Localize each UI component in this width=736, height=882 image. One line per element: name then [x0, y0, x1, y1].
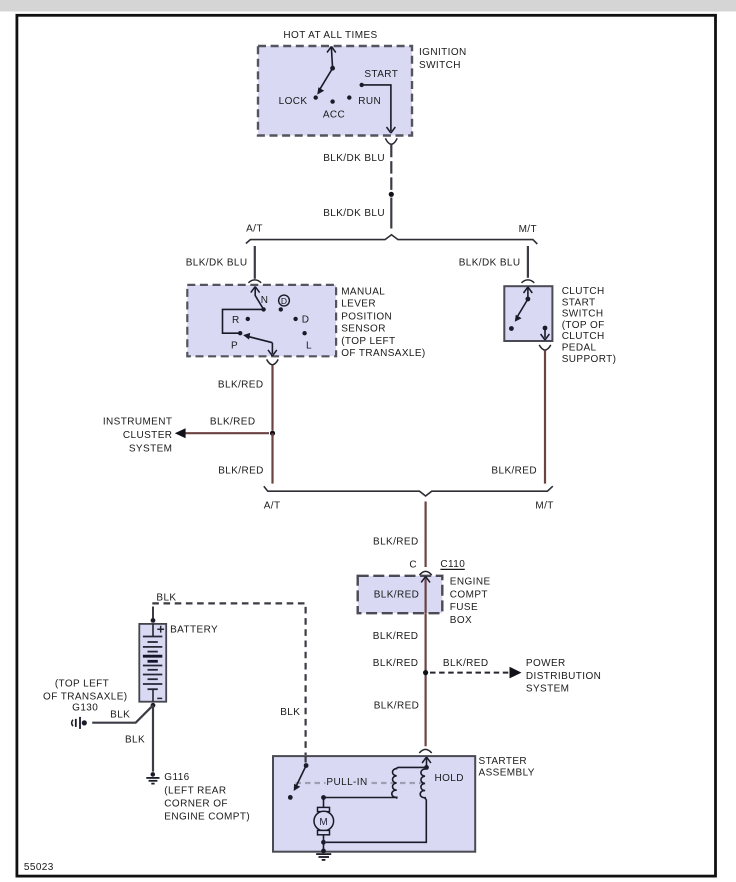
wire BLK/DK BLU solid segment: [390, 198, 392, 229]
svg-text:SUPPORT): SUPPORT): [562, 354, 617, 365]
svg-text:L: L: [306, 340, 312, 351]
contact RUN: [347, 95, 381, 107]
svg-text:LEVER: LEVER: [341, 299, 376, 310]
splice merge of A/T and M/T branches: [264, 486, 553, 496]
label BLK/RED: [373, 537, 419, 548]
label BLK/DK BLU: [459, 258, 521, 269]
wire START output with down arrow: [362, 85, 396, 133]
svg-text:CLUSTER: CLUSTER: [123, 430, 172, 441]
wire BLK to ground G116: [152, 705, 154, 771]
label MANUAL LEVER POSITION SENSOR (TOP LEFT OF TRANSAXLE): [341, 286, 425, 359]
svg-text:R: R: [232, 315, 240, 326]
clutch switch entry arrow: [524, 287, 533, 299]
svg-text:POSITION: POSITION: [341, 311, 392, 322]
svg-text:(LEFT REAR: (LEFT REAR: [164, 785, 226, 796]
svg-text:(TOP LEFT: (TOP LEFT: [341, 336, 395, 347]
MLPS exit arrow: [268, 343, 277, 356]
svg-text:A/T: A/T: [246, 224, 263, 235]
wire BLK/RED A/T to merge: [271, 433, 273, 483]
label BLK/RED: [373, 658, 419, 669]
svg-text:D: D: [281, 296, 287, 306]
overdrive indicator D circle: [279, 295, 290, 306]
svg-text:A/T: A/T: [264, 501, 281, 512]
starter assembly box: [273, 756, 475, 852]
label G116 (LEFT REAR CORNER OF ENGINE COMPT): [164, 772, 250, 822]
svg-text:M/T: M/T: [519, 224, 537, 235]
svg-text:ASSEMBLY: ASSEMBLY: [479, 768, 535, 779]
wire BLK/RED M/T to merge: [544, 350, 546, 483]
svg-text:55023: 55023: [24, 862, 54, 873]
battery B1: [139, 624, 166, 702]
svg-text:N: N: [261, 295, 269, 306]
contact N: [261, 295, 269, 311]
label CLUTCH START SWITCH (TOP OF CLUTCH PEDAL SUPPORT): [562, 286, 617, 365]
label BLK/RED: [491, 466, 537, 477]
svg-text:OF TRANSAXLE): OF TRANSAXLE): [341, 348, 425, 359]
svg-text:CORNER OF: CORNER OF: [164, 798, 228, 809]
manual lever position sensor box: [187, 285, 336, 356]
connector at clutch switch entry: [522, 280, 535, 283]
wire BLK/DK BLU dashed segment: [390, 145, 392, 191]
svg-text:COMPT: COMPT: [450, 589, 488, 600]
label A/T: [246, 224, 263, 235]
MLPS wiper lever: [243, 333, 272, 343]
wire A/T branch BLK/DK BLU: [254, 246, 256, 279]
label pin C: [409, 560, 417, 571]
contact L: [302, 331, 312, 351]
clutch switch output node and down arrow: [541, 326, 550, 340]
label BLK/DK BLU: [323, 153, 385, 164]
label BLK/RED: [373, 631, 419, 642]
contact R: [232, 315, 250, 326]
contact P: [231, 331, 242, 352]
label ENGINE COMPT FUSE BOX: [450, 577, 491, 626]
svg-text:D: D: [302, 314, 310, 325]
svg-text:BLK/DK BLU: BLK/DK BLU: [323, 153, 385, 164]
svg-text:HOLD: HOLD: [435, 773, 464, 784]
svg-text:PEDAL: PEDAL: [562, 343, 597, 354]
wire to instrument cluster system: [175, 428, 269, 438]
starter ground: [316, 854, 331, 860]
clutch start switch box: [504, 286, 552, 341]
svg-text:BLK/RED: BLK/RED: [218, 466, 264, 477]
svg-text:C: C: [409, 560, 417, 571]
label BLK/RED: [218, 380, 264, 391]
svg-text:BLK: BLK: [125, 735, 145, 746]
svg-text:HOT AT ALL TIMES: HOT AT ALL TIMES: [283, 30, 377, 41]
ground G130: [72, 717, 87, 729]
label BLK/RED: [210, 417, 256, 428]
svg-text:BLK/RED: BLK/RED: [374, 590, 420, 601]
ground G116: [146, 772, 159, 783]
label BLK/RED: [374, 700, 420, 711]
hold coil: [326, 768, 426, 843]
label HOLD: [435, 773, 464, 784]
svg-text:G130: G130: [72, 703, 98, 714]
label BLK: [125, 735, 145, 746]
svg-text:(TOP OF: (TOP OF: [562, 320, 605, 331]
svg-text:BLK: BLK: [156, 593, 176, 604]
engine compartment fuse box: [358, 576, 443, 613]
label BLK/RED: [218, 466, 264, 477]
label HOT AT ALL TIMES: [283, 30, 377, 41]
svg-text:RUN: RUN: [358, 96, 381, 107]
svg-text:BATTERY: BATTERY: [170, 624, 218, 635]
svg-text:G116: G116: [164, 772, 189, 783]
svg-text:BLK/RED: BLK/RED: [443, 658, 489, 669]
wire BLK/RED below fuse box: [425, 613, 427, 746]
svg-text:OF TRANSAXLE): OF TRANSAXLE): [43, 691, 127, 702]
label A/T: [264, 501, 281, 512]
pull-in coil: [324, 767, 427, 798]
label BLK: [110, 709, 130, 720]
label M/T: [535, 501, 553, 512]
svg-text:BLK/DK BLU: BLK/DK BLU: [323, 208, 385, 219]
svg-text:PULL-IN: PULL-IN: [326, 777, 367, 788]
wire BLK dashed battery to starter: [152, 603, 305, 755]
splice split to A/T and M/T branches: [246, 235, 537, 244]
svg-text:(TOP LEFT: (TOP LEFT: [55, 678, 109, 689]
contact LOCK: [279, 95, 318, 106]
svg-text:BLK/RED: BLK/RED: [373, 658, 419, 669]
svg-text:SWITCH: SWITCH: [562, 309, 604, 320]
svg-text:BLK/RED: BLK/RED: [373, 631, 419, 642]
battery negative terminal node: [151, 703, 156, 708]
wire M/T branch BLK/DK BLU: [527, 246, 529, 278]
switch wiper lever: [317, 66, 335, 95]
label M/T: [519, 224, 537, 235]
svg-text:INSTRUMENT: INSTRUMENT: [103, 417, 173, 428]
label BLK/DK BLU: [323, 208, 385, 219]
label BLK/RED: [443, 658, 489, 669]
svg-text:CLUTCH: CLUTCH: [562, 331, 605, 342]
svg-text:P: P: [231, 341, 238, 352]
svg-text:DISTRIBUTION: DISTRIBUTION: [526, 671, 601, 682]
label IGNITION SWITCH: [419, 47, 467, 71]
label (TOP LEFT OF TRANSAXLE) G130: [43, 678, 127, 713]
svg-text:BLK/DK BLU: BLK/DK BLU: [459, 258, 521, 269]
contact below D circle: [279, 307, 283, 311]
contact D: [293, 314, 309, 325]
label BLK/DK BLU: [186, 258, 248, 269]
label PULL-IN: [326, 777, 367, 788]
connector at MLPS entry: [248, 280, 261, 283]
svg-text:SENSOR: SENSOR: [341, 324, 386, 335]
svg-text:SYSTEM: SYSTEM: [129, 444, 173, 455]
svg-text:FUSE: FUSE: [450, 602, 478, 613]
svg-text:ACC: ACC: [323, 109, 345, 120]
svg-text:POWER: POWER: [526, 658, 566, 669]
label BATTERY: [170, 624, 218, 635]
wire BLK/RED merge output: [425, 502, 427, 568]
label INSTRUMENT CLUSTER SYSTEM: [103, 417, 173, 455]
connector at clutch switch exit: [539, 345, 551, 350]
label connector C110: [440, 559, 465, 570]
svg-text:CLUTCH: CLUTCH: [562, 286, 605, 297]
label BLK: [156, 593, 176, 604]
svg-text:M/T: M/T: [535, 501, 553, 512]
solenoid mechanical link dashed: [296, 776, 424, 788]
label 55023: [24, 862, 54, 873]
label BLK/RED inside fuse box: [374, 590, 420, 601]
svg-text:LOCK: LOCK: [279, 96, 308, 107]
wire dashed to power distribution system: [430, 667, 522, 679]
wire BLK to ground G130: [92, 705, 153, 722]
svg-text:BOX: BOX: [450, 615, 472, 626]
starter motor M: [314, 795, 334, 845]
svg-text:SWITCH: SWITCH: [419, 60, 461, 71]
junction to power distribution: [423, 670, 428, 675]
wire to starter ground: [321, 842, 326, 853]
label POWER DISTRIBUTION SYSTEM: [526, 658, 601, 694]
svg-text:BLK/RED: BLK/RED: [210, 417, 256, 428]
svg-text:C110: C110: [440, 559, 465, 570]
svg-text:BLK/RED: BLK/RED: [373, 537, 419, 548]
connector C110 at fuse box entry: [419, 571, 431, 575]
svg-text:START: START: [364, 69, 398, 80]
svg-text:ENGINE: ENGINE: [450, 577, 491, 588]
svg-text:BLK: BLK: [110, 709, 130, 720]
svg-text:BLK: BLK: [280, 707, 300, 718]
svg-text:STARTER: STARTER: [479, 756, 528, 767]
wire BLK/RED through fuse box with up arrow: [421, 576, 430, 613]
svg-text:BLK/RED: BLK/RED: [218, 380, 264, 391]
contact ACC: [323, 99, 345, 120]
wire BLK/RED from MLPS: [271, 365, 273, 430]
ignition switch box: [258, 46, 412, 136]
MLPS entry arrow: [251, 287, 264, 310]
MLPS selector path N to P: [223, 309, 264, 333]
connector at starter assembly entry: [419, 749, 431, 753]
label BLK: [280, 707, 300, 718]
battery positive terminal node: [151, 607, 156, 623]
svg-text:ENGINE COMPT): ENGINE COMPT): [164, 811, 250, 822]
label STARTER ASSEMBLY: [479, 756, 535, 778]
connector ignition output: [385, 138, 397, 144]
svg-text:M: M: [319, 817, 328, 828]
svg-text:BLK/RED: BLK/RED: [491, 466, 537, 477]
starter entry arrow and node: [422, 757, 431, 770]
junction to instrument cluster: [270, 431, 275, 436]
clutch switch contact: [509, 326, 514, 331]
svg-text:SYSTEM: SYSTEM: [526, 684, 570, 695]
svg-text:BLK/RED: BLK/RED: [374, 700, 420, 711]
svg-text:IGNITION: IGNITION: [419, 47, 467, 58]
contact START: [360, 69, 399, 87]
connector at MLPS exit: [267, 359, 279, 365]
svg-text:MANUAL: MANUAL: [341, 286, 385, 297]
svg-text:START: START: [562, 297, 596, 308]
solenoid contact lever with BLK entry: [288, 756, 309, 800]
clutch switch lever: [515, 297, 531, 322]
junction splice dot: [389, 192, 394, 197]
wire hot feed with up arrow: [327, 47, 336, 69]
svg-text:BLK/DK BLU: BLK/DK BLU: [186, 258, 248, 269]
